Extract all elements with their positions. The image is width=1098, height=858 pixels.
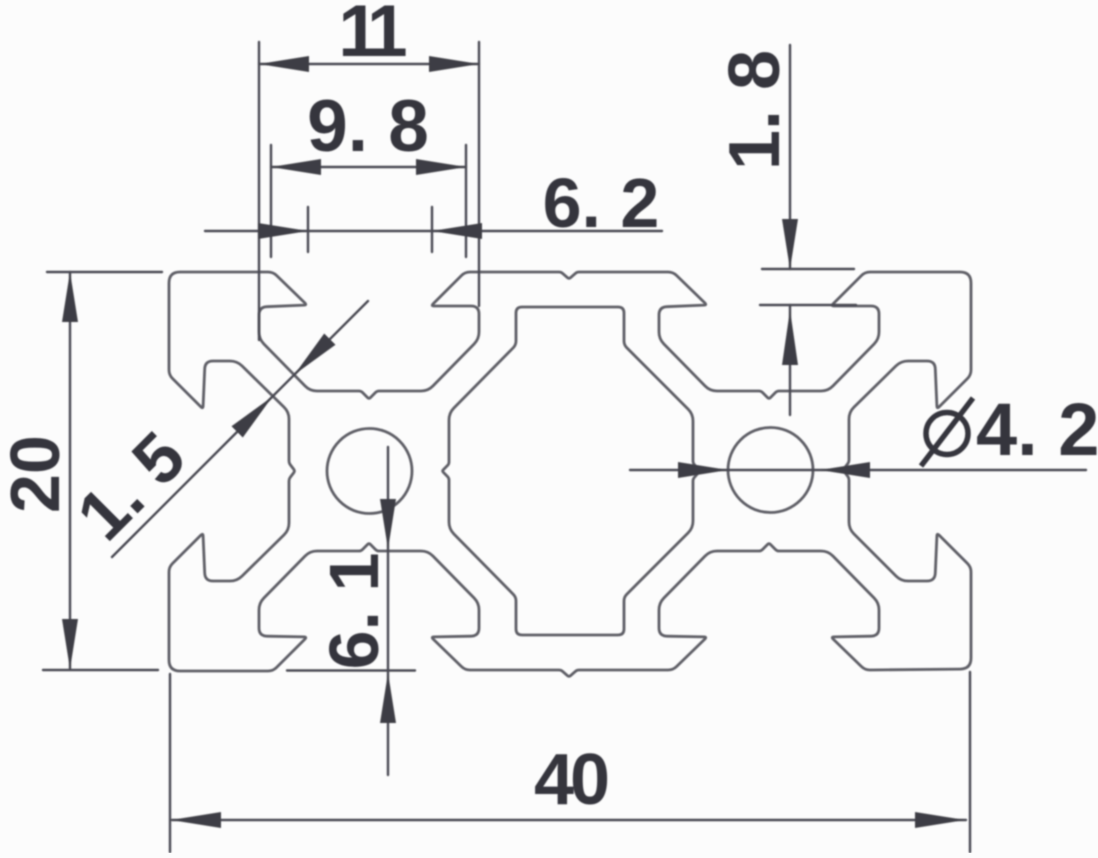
svg-text:6. 1: 6. 1 xyxy=(315,553,393,670)
svg-text:4. 2: 4. 2 xyxy=(976,388,1098,471)
svg-text:40: 40 xyxy=(534,740,608,820)
svg-text:1. 8: 1. 8 xyxy=(715,50,795,170)
svg-text:6. 2: 6. 2 xyxy=(543,164,660,242)
svg-text:9. 8: 9. 8 xyxy=(307,86,429,167)
svg-text:11: 11 xyxy=(338,0,406,72)
